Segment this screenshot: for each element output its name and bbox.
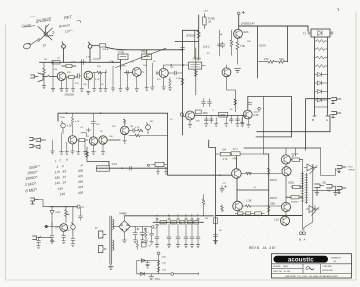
ch2 ground symbols xyxy=(51,151,105,154)
fs diode drop xyxy=(50,207,54,227)
ch2 bus junction dots xyxy=(66,112,68,114)
small cap cluster mid xyxy=(220,42,225,48)
T6 top cap xyxy=(248,103,252,105)
aux resistor 27 xyxy=(157,267,160,272)
rail top bend xyxy=(209,140,216,148)
filter cap 1 xyxy=(133,227,139,243)
ladder diode D row5 xyxy=(315,73,328,77)
transformer bottom ground xyxy=(108,264,113,269)
trem transistor T5 xyxy=(186,111,195,120)
svg-text:1.5K: 1.5K xyxy=(161,222,166,224)
transistor Q1 xyxy=(57,72,66,81)
rail x231 parts xyxy=(230,30,233,55)
footswitch top wire xyxy=(49,206,77,208)
svg-text:100K: 100K xyxy=(65,214,71,216)
svg-text:1.2A: 1.2A xyxy=(274,219,279,222)
output collector rail xyxy=(285,148,286,216)
svg-text:1N34: 1N34 xyxy=(55,212,61,214)
svg-text:A: A xyxy=(326,118,328,122)
svg-text:1M: 1M xyxy=(44,59,47,61)
svg-text:A: A xyxy=(156,214,158,218)
fs labels xyxy=(55,212,71,232)
driver transistor Q5 xyxy=(232,169,242,179)
ladder rung9 xyxy=(315,106,328,108)
ch2 bias parts above xyxy=(71,113,74,134)
pa left lower part xyxy=(221,205,224,213)
svg-text:50K: 50K xyxy=(143,65,147,67)
trem out wire lower xyxy=(257,131,330,133)
aux loop left edge xyxy=(136,261,138,274)
svg-text:VOL: VOL xyxy=(118,52,123,54)
svg-text:2N3055: 2N3055 xyxy=(291,202,299,204)
aux bottom wire xyxy=(137,273,199,275)
ladder resistor R row1 xyxy=(315,40,328,43)
drop grounds xyxy=(155,245,200,248)
svg-text:F: F xyxy=(197,214,199,218)
svg-text:AC: AC xyxy=(95,227,98,230)
bias ladder left rail xyxy=(314,37,316,113)
svg-text:22K: 22K xyxy=(270,202,275,206)
ch2 enclosure right edge xyxy=(167,113,169,175)
wire to J2 xyxy=(329,115,331,132)
pa mid rail xyxy=(268,154,270,216)
svg-text:DWG NO 10-150: DWG NO 10-150 xyxy=(273,271,291,273)
feedback vertical xyxy=(86,147,89,161)
coupling resistor box Q1-Q2 xyxy=(66,76,77,79)
svg-text:10K A: 10K A xyxy=(103,48,109,51)
bias ladder top transformer box xyxy=(311,29,330,37)
ch2 transistor T3 xyxy=(99,136,107,144)
wire bus to Q3 xyxy=(117,60,121,70)
svg-text:50K: 50K xyxy=(66,230,70,232)
fs pot xyxy=(71,223,76,236)
ladder bottom terminal right xyxy=(326,113,329,116)
svg-text:R2A: R2A xyxy=(244,31,249,34)
ladder resistor R row4 xyxy=(315,65,328,68)
ch1 input jack upper xyxy=(31,75,39,78)
svg-text:100Ω: 100Ω xyxy=(155,279,161,281)
osc drops xyxy=(156,167,167,174)
lineA down branch xyxy=(93,47,100,59)
psu junction circle xyxy=(151,226,154,229)
fs base junction blob xyxy=(45,225,47,228)
svg-text:1.5K: 1.5K xyxy=(67,125,72,128)
ladder diode D row6 xyxy=(315,81,328,85)
fs junction dots xyxy=(51,206,52,207)
ch2 transistor T4 xyxy=(120,126,129,143)
trem vertical x235 xyxy=(234,90,237,112)
ch2 pot xyxy=(61,121,66,133)
fs bottom parts 3 xyxy=(71,235,75,246)
secondary line xyxy=(312,165,314,209)
ext spkr jack lower xyxy=(337,187,346,194)
coupling cap Q1-Q2 xyxy=(77,74,81,79)
svg-text:4.7K: 4.7K xyxy=(135,127,140,129)
ladder diode D row7 xyxy=(315,90,328,94)
psu plus bus xyxy=(125,215,214,217)
svg-text:4.7K: 4.7K xyxy=(86,57,91,59)
svg-text:EXT: EXT xyxy=(349,167,354,169)
pa left cap xyxy=(220,186,226,193)
bus resistor boxes xyxy=(160,221,198,225)
ch2 input jack xyxy=(30,138,46,143)
feedback wire cap xyxy=(130,166,132,170)
upper feed wire xyxy=(175,41,199,43)
output winding right column xyxy=(305,173,307,204)
fuse F1 xyxy=(203,14,206,29)
ch2 input jack 2 xyxy=(30,145,41,149)
T5 box xyxy=(195,110,201,114)
junction dots q4 wire xyxy=(170,64,172,66)
svg-text:250K: 250K xyxy=(121,66,126,68)
ch1 ground drops 2 xyxy=(121,60,153,89)
bias ladder top box diode xyxy=(318,31,322,36)
svg-text:15Ω: 15Ω xyxy=(279,58,284,61)
note underline flourish xyxy=(23,21,81,28)
ground symbols row ch1b xyxy=(119,87,154,91)
svg-text:2N3054: 2N3054 xyxy=(186,35,195,38)
trem mid row wire xyxy=(195,115,244,117)
svg-text:27Ω: 27Ω xyxy=(162,270,166,272)
svg-text:8Ω: 8Ω xyxy=(323,180,326,184)
footswitch H terminal xyxy=(77,205,80,208)
ch1 bus dots xyxy=(52,62,54,64)
relay box xyxy=(189,62,202,69)
svg-text:2N3053: 2N3053 xyxy=(193,58,202,61)
svg-text:1M: 1M xyxy=(54,69,57,71)
svg-text:7.5K: 7.5K xyxy=(240,45,245,48)
driver mid tap wire xyxy=(237,189,269,191)
driver link wire xyxy=(236,178,238,201)
svg-text:12K: 12K xyxy=(170,67,174,69)
BA terminal A xyxy=(302,232,305,235)
svg-text:10K: 10K xyxy=(97,66,101,68)
fs lower jack xyxy=(33,236,52,240)
ch2 top bus wire xyxy=(58,113,168,121)
aux terminal circle xyxy=(171,273,174,276)
svg-text:2x4: 2x4 xyxy=(222,149,227,152)
svg-text:B: B xyxy=(299,238,301,242)
terminal drops xyxy=(157,220,198,237)
output transistor QD xyxy=(280,216,289,225)
ground symbols row ch1 xyxy=(51,88,115,94)
svg-text:.1 .4: .1 .4 xyxy=(56,164,64,169)
svg-text:APPROVED: APPROVED xyxy=(323,269,334,272)
wire Q4 top to relay box xyxy=(164,65,206,68)
ch2 cap cluster xyxy=(81,128,91,136)
pa resistor labels xyxy=(222,148,238,161)
ch2 labels xyxy=(75,121,133,138)
svg-text:B: B xyxy=(168,214,170,218)
svg-text:2N2925: 2N2925 xyxy=(65,93,75,97)
transistor Q4 xyxy=(159,68,168,77)
wire Q7 collector to right xyxy=(239,26,308,31)
Q4 emitter drop xyxy=(162,78,166,90)
trem row drops xyxy=(206,116,242,124)
trem row grounds xyxy=(204,124,244,127)
fs jack lead xyxy=(38,200,49,207)
psu arrow marks xyxy=(155,225,159,230)
ch2 bottom feedback wire xyxy=(97,167,168,169)
ladder resistor R row3 xyxy=(315,56,328,59)
ch2 ground drops xyxy=(53,133,104,152)
svg-text:CHECKED: CHECKED xyxy=(323,266,333,268)
wire Q2 to right xyxy=(93,70,107,74)
svg-text:1.2K: 1.2K xyxy=(246,199,252,203)
left psu parts xyxy=(144,228,148,244)
T4 right parts xyxy=(129,128,143,132)
speaker jack 4ohm xyxy=(327,185,338,196)
trem loop right xyxy=(291,97,293,137)
bus box labels xyxy=(161,222,193,224)
title block box xyxy=(272,254,352,278)
svg-text:1.5K: 1.5K xyxy=(109,61,114,63)
svg-text:115-2: 115-2 xyxy=(203,45,210,49)
fs left lead xyxy=(44,226,60,228)
trem transistor T6 xyxy=(243,110,252,119)
terminal bus wire xyxy=(153,221,204,223)
pa top wire xyxy=(244,147,321,149)
ch1 left drop xyxy=(42,62,46,88)
svg-text:4.7K: 4.7K xyxy=(95,79,100,81)
power section terminal + xyxy=(237,11,244,14)
svg-text:LDR: LDR xyxy=(220,113,225,117)
osc dot xyxy=(148,164,150,166)
aux vertical branch xyxy=(158,255,160,274)
svg-text:150K: 150K xyxy=(203,113,209,115)
svg-text:acoustic: acoustic xyxy=(288,257,314,264)
trem loop bottom xyxy=(256,136,292,138)
svg-text:2.2K: 2.2K xyxy=(254,114,259,117)
ground under Q7 xyxy=(235,69,241,72)
output transistor QC xyxy=(281,202,290,211)
winding ticks right xyxy=(305,175,308,203)
svg-text:.199: .199 xyxy=(59,192,66,197)
svg-text:16V: 16V xyxy=(141,235,145,237)
wire right branch down xyxy=(287,26,289,62)
bridge leads xyxy=(113,216,134,243)
fs bottom parts xyxy=(50,222,54,243)
svg-text:2Ω: 2Ω xyxy=(219,230,222,232)
ch1 bus wire xyxy=(40,61,117,63)
note arrow to sketch xyxy=(46,24,50,29)
ch2 wire to T4 xyxy=(107,139,120,141)
ch2 out wire xyxy=(129,134,168,137)
junction dot pa-in xyxy=(220,174,222,176)
emitter resistor QA xyxy=(291,158,303,161)
svg-text:SPKR: SPKR xyxy=(349,169,355,171)
line-A resistor xyxy=(92,44,126,50)
svg-text:250K: 250K xyxy=(60,117,65,119)
T6 grounds xyxy=(240,118,250,127)
svg-text:.145: .145 xyxy=(57,186,64,191)
parts right of Q4 xyxy=(168,71,182,75)
footswitch jack J2 right xyxy=(332,112,342,118)
lamp vertical feed xyxy=(218,30,222,56)
rail ground x215 xyxy=(213,236,218,243)
filter cap 2 xyxy=(140,227,146,243)
rail x196 xyxy=(194,48,197,95)
pa bottom junction dot xyxy=(258,215,260,217)
fs resistor drop xyxy=(65,207,68,223)
feedback junction dot xyxy=(121,167,123,169)
transistor Q8 xyxy=(222,65,235,90)
svg-text:E: E xyxy=(191,214,193,218)
Q4 link parts xyxy=(141,71,159,75)
impedance table col2 xyxy=(54,164,67,196)
output transistor QB xyxy=(282,167,291,176)
SCR diode lower xyxy=(306,206,319,216)
FET sketch cross xyxy=(38,26,53,42)
power amp input wire xyxy=(168,174,233,176)
trem loop top xyxy=(248,97,292,111)
bias ladder top box leads xyxy=(308,31,333,35)
drop caps xyxy=(155,237,200,245)
supply rail top wire xyxy=(183,29,199,31)
fs transistor Q9 xyxy=(60,224,68,232)
terminal circles xyxy=(156,218,199,220)
junction dot 2 xyxy=(89,62,90,63)
svg-text:426: 426 xyxy=(78,190,84,195)
svg-text:150 K: 150 K xyxy=(259,44,266,48)
wire lineA to tone pot xyxy=(126,49,147,51)
svg-text:1.5 A: 1.5 A xyxy=(112,163,118,166)
T5 emitter ground xyxy=(188,120,192,127)
trem upper caps xyxy=(202,99,212,107)
svg-text:2.2K: 2.2K xyxy=(176,78,181,80)
aux loop top wire xyxy=(137,259,159,263)
svg-text:117V: 117V xyxy=(119,213,124,215)
svg-text:B: B xyxy=(312,118,314,122)
fs cap col left xyxy=(37,238,41,249)
FET sketch G loop xyxy=(24,43,31,49)
emitter resistor QC xyxy=(286,196,303,199)
FET sketch G lead xyxy=(31,39,40,45)
osc box xyxy=(151,162,168,166)
psu lower parts xyxy=(136,241,146,250)
svg-text:TRE: TRE xyxy=(141,52,146,54)
trem row caps xyxy=(204,119,239,121)
transformer core xyxy=(110,216,112,264)
fs input jack xyxy=(31,198,39,204)
svg-text:450: 450 xyxy=(78,179,84,184)
svg-text:REV B JA 3 67: REV B JA 3 67 xyxy=(249,246,276,250)
feedback upper jog xyxy=(87,161,109,166)
T6 base resistor xyxy=(243,115,247,117)
svg-text:4.7K: 4.7K xyxy=(223,158,228,161)
junction dot 1 xyxy=(63,62,64,63)
rail resistor xyxy=(181,78,184,85)
svg-text:+39.5: +39.5 xyxy=(203,11,209,13)
aux mid cap xyxy=(146,261,150,269)
aux labels xyxy=(162,257,167,272)
transistor Q7 xyxy=(234,29,243,38)
output transistor QA xyxy=(281,155,290,164)
diagonal wire to tone pots xyxy=(116,48,167,67)
ch1 ground drops xyxy=(53,62,113,88)
trem connect wire xyxy=(264,97,269,155)
ch2 transistor T1 xyxy=(68,136,76,144)
terminal letters A-F xyxy=(156,214,199,218)
svg-text:470: 470 xyxy=(78,174,84,179)
power amp left rail xyxy=(215,148,217,245)
transistor Q2 xyxy=(84,71,93,80)
resistor R above strip xyxy=(202,195,205,216)
svg-text:22K: 22K xyxy=(112,126,116,128)
trem out wire upper xyxy=(306,99,331,150)
svg-text:476: 476 xyxy=(78,185,84,190)
svg-text:A: A xyxy=(304,238,306,242)
svg-text:J.A.: J.A. xyxy=(333,260,337,263)
base wires to outputs xyxy=(241,172,282,207)
AC line terminal upper xyxy=(98,231,106,238)
Q3 base parts xyxy=(124,71,133,75)
aux resistor 2.2K xyxy=(157,261,160,266)
svg-text:47K: 47K xyxy=(96,124,100,126)
aux ground xyxy=(149,274,154,280)
wire from terminal to Q7 xyxy=(238,15,240,29)
impedance table header xyxy=(55,158,69,163)
fs plus mark xyxy=(51,240,55,242)
svg-text:10K: 10K xyxy=(109,136,113,138)
T6 out terminal xyxy=(254,107,260,112)
jack connect wires xyxy=(321,148,337,175)
small parts above Q2 xyxy=(80,60,87,65)
trimmer circle xyxy=(146,123,151,134)
svg-text:DRAWN BY: DRAWN BY xyxy=(331,256,342,259)
svg-text:2A: 2A xyxy=(208,20,211,24)
ladder resistor R row2 xyxy=(315,48,328,51)
svg-text:H: H xyxy=(82,205,84,209)
BA terminal B xyxy=(299,232,302,235)
impedance table col1 xyxy=(24,164,41,193)
title block drawn-by signature xyxy=(306,266,314,270)
svg-text:100Ω: 100Ω xyxy=(288,182,294,185)
svg-text:2N3053 #7: 2N3053 #7 xyxy=(241,22,255,26)
ch1 input jack lower xyxy=(38,73,57,82)
emitter resistor QB xyxy=(291,185,303,188)
svg-text:400: 400 xyxy=(78,168,84,173)
bus resistor box xyxy=(52,61,60,64)
wire bottom leg with resistors xyxy=(259,60,288,63)
AC line terminal lower xyxy=(98,245,106,252)
T4 top lead xyxy=(123,119,126,126)
fs H drop cap xyxy=(79,208,83,221)
svg-text:MODEL 150B: MODEL 150B xyxy=(273,266,288,268)
winding down wires xyxy=(302,203,313,230)
fs right drop xyxy=(72,207,74,225)
SCR diode upper xyxy=(304,164,317,174)
svg-text:2.2K: 2.2K xyxy=(162,263,167,265)
spkr bus wire xyxy=(313,189,340,191)
svg-text:47.7: 47.7 xyxy=(233,148,238,151)
wire tone pot to rail xyxy=(147,50,183,54)
winding ticks xyxy=(301,174,304,202)
aux top terminal xyxy=(157,252,160,255)
ladder diode D row8 xyxy=(315,98,328,102)
power rail left xyxy=(198,15,200,60)
pa bottom wire xyxy=(216,215,303,217)
resistor on left rail xyxy=(197,31,200,38)
acoustic logo xyxy=(274,256,329,264)
feedback box xyxy=(97,166,110,171)
svg-text:47Ω: 47Ω xyxy=(264,58,269,61)
footswitch jack J1 right xyxy=(332,98,342,104)
rail cap xyxy=(181,44,185,52)
Q5 collector to row xyxy=(235,156,237,169)
pa top resistor pair upper xyxy=(216,152,269,156)
mid rail resistor marks xyxy=(267,168,270,212)
